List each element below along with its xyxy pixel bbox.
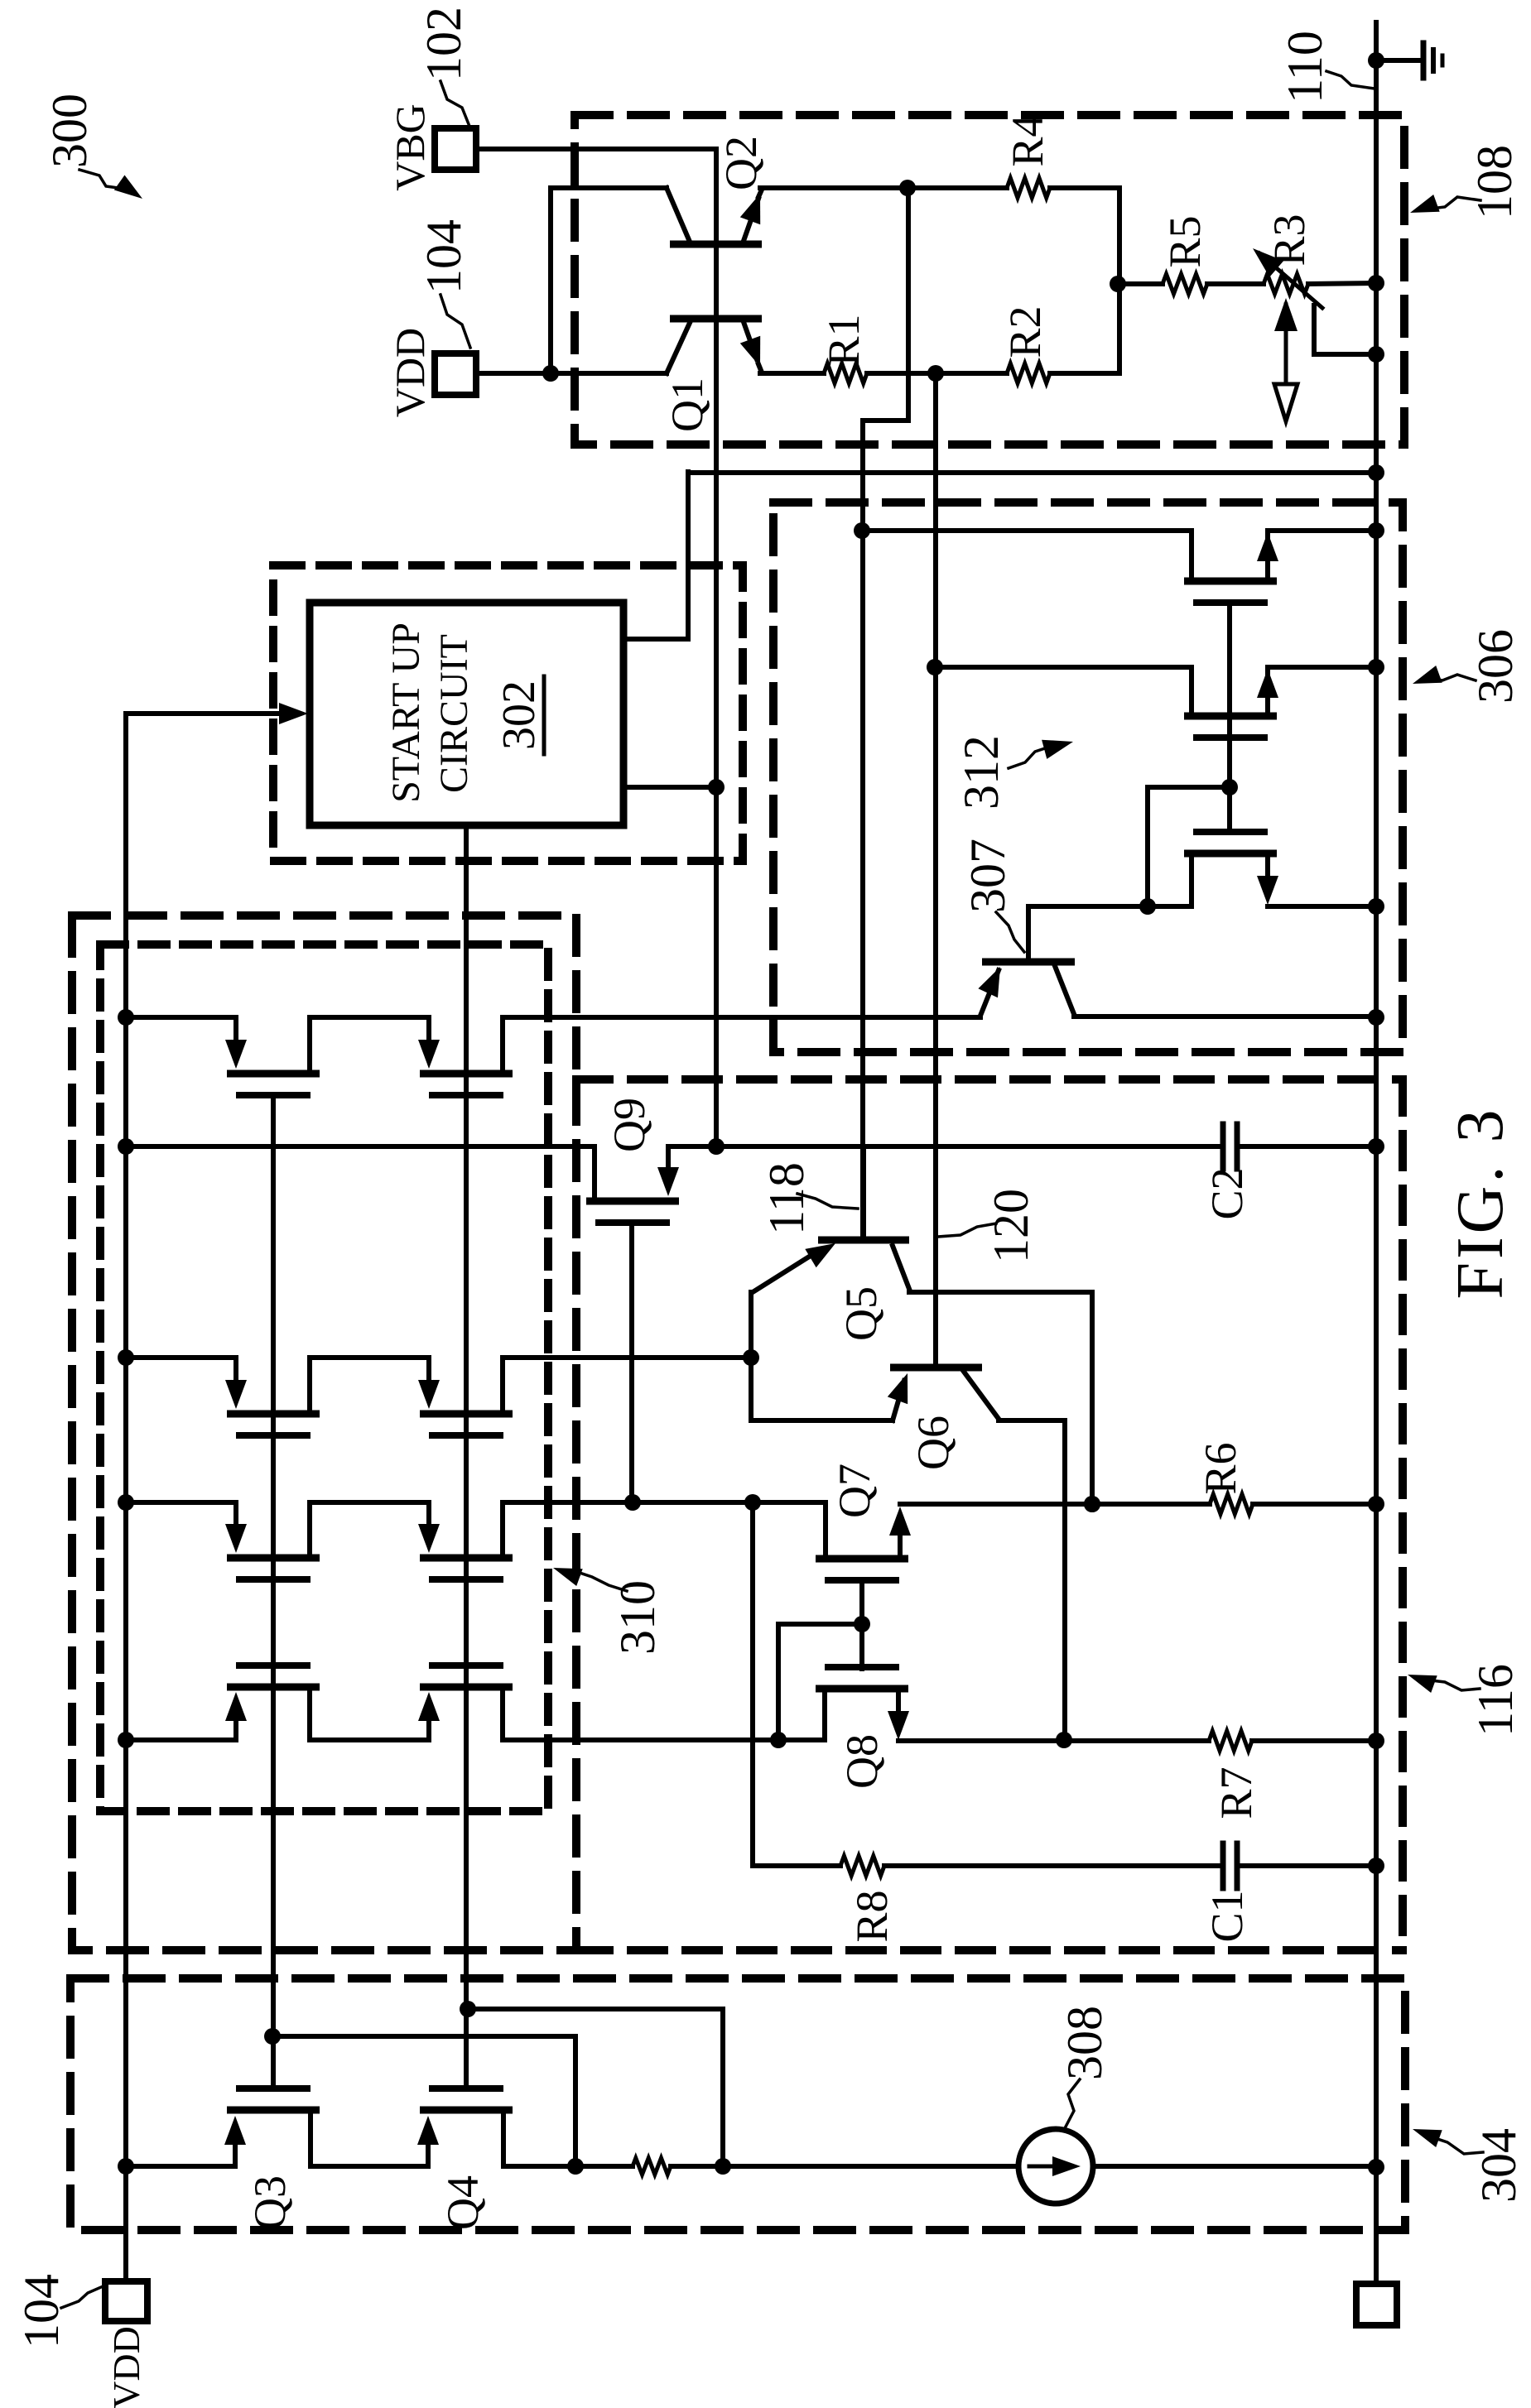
svg-text:Q2: Q2 <box>716 136 766 190</box>
svg-text:118: 118 <box>759 1162 814 1235</box>
svg-text:104: 104 <box>416 219 471 294</box>
svg-text:108: 108 <box>1467 145 1522 219</box>
svg-text:VBG: VBG <box>387 103 433 191</box>
svg-text:Q7: Q7 <box>830 1464 879 1518</box>
svg-text:Q1: Q1 <box>662 377 712 432</box>
svg-text:R4: R4 <box>1003 114 1052 166</box>
svg-text:R1: R1 <box>819 314 869 366</box>
svg-text:306: 306 <box>1468 629 1523 704</box>
svg-text:VDD: VDD <box>105 2326 147 2408</box>
svg-text:R6: R6 <box>1196 1442 1245 1494</box>
svg-text:START UP: START UP <box>384 622 428 803</box>
svg-text:310: 310 <box>610 1580 665 1655</box>
svg-text:300: 300 <box>42 94 97 168</box>
svg-text:307: 307 <box>960 839 1015 913</box>
svg-text:110: 110 <box>1278 31 1332 103</box>
svg-text:R5: R5 <box>1160 215 1210 267</box>
svg-text:Q8: Q8 <box>837 1734 887 1789</box>
svg-text:Q9: Q9 <box>604 1098 654 1152</box>
svg-text:C1: C1 <box>1202 1890 1252 1942</box>
svg-text:Q5: Q5 <box>836 1286 886 1341</box>
svg-text:304: 304 <box>1471 2128 1526 2203</box>
svg-text:Q3: Q3 <box>245 2175 295 2230</box>
svg-text:302: 302 <box>493 680 545 750</box>
svg-text:102: 102 <box>416 7 471 81</box>
svg-text:116: 116 <box>1468 1664 1523 1737</box>
svg-text:FIG. 3: FIG. 3 <box>1444 1107 1517 1300</box>
svg-text:VDD: VDD <box>387 328 433 417</box>
svg-text:308: 308 <box>1057 2006 1112 2080</box>
svg-text:CIRCUIT: CIRCUIT <box>432 634 476 793</box>
svg-text:120: 120 <box>984 1189 1038 1263</box>
svg-text:C2: C2 <box>1202 1167 1252 1219</box>
svg-text:Q6: Q6 <box>908 1415 958 1470</box>
svg-text:R7: R7 <box>1211 1766 1261 1819</box>
svg-text:104: 104 <box>14 2274 69 2348</box>
svg-text:R8: R8 <box>847 1890 897 1942</box>
svg-text:312: 312 <box>954 735 1009 810</box>
svg-text:Q4: Q4 <box>438 2175 488 2230</box>
svg-text:R3: R3 <box>1264 214 1314 266</box>
svg-text:R2: R2 <box>1000 305 1050 358</box>
